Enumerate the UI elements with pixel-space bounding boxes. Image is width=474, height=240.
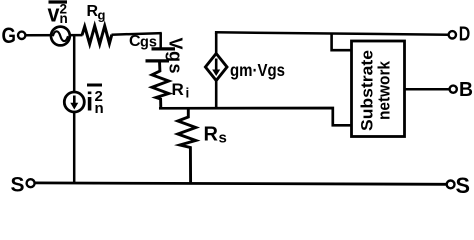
- wire internal node to substrate network: [159, 108, 353, 125]
- label Ri: [172, 80, 190, 101]
- label Substrate network: [358, 50, 394, 131]
- wire gate junction to In source to S rail: [73, 35, 76, 183]
- wire drain line: [215, 32, 449, 34]
- svg-text:n: n: [60, 11, 68, 26]
- label Vn2: [48, 1, 68, 28]
- terminal S right: [447, 173, 470, 198]
- svg-text:B: B: [459, 78, 473, 101]
- wire branch to substrate network: [332, 33, 353, 50]
- resistor Ri: [152, 61, 169, 108]
- svg-text:D: D: [459, 23, 471, 46]
- svg-text:g: g: [98, 8, 106, 23]
- noise current source In2: [64, 92, 84, 112]
- wire bulk line: [404, 88, 450, 91]
- wire G line: [25, 33, 162, 50]
- wire source rail: [35, 183, 447, 184]
- svg-text:S: S: [11, 172, 25, 194]
- svg-text:S: S: [456, 173, 471, 194]
- svg-text:G: G: [2, 23, 17, 48]
- svg-text:gs: gs: [140, 35, 157, 51]
- svg-text:n: n: [95, 100, 104, 117]
- svg-text:R: R: [172, 80, 184, 99]
- label Vgs: [166, 38, 186, 76]
- terminal B: [450, 78, 473, 101]
- label Cgs: [129, 33, 157, 50]
- capacitor Cgs: [146, 49, 176, 61]
- svg-text:i: i: [86, 87, 93, 117]
- svg-text:Vgs: Vgs: [166, 38, 186, 76]
- svg-text:i: i: [186, 86, 190, 101]
- resistor Rs: [178, 109, 196, 183]
- terminal S left: [11, 172, 35, 196]
- svg-text:R: R: [204, 124, 219, 146]
- label Rg: [87, 3, 106, 23]
- label Rs: [204, 124, 227, 147]
- svg-text:gm·Vgs: gm·Vgs: [230, 60, 285, 80]
- substrate network block: [352, 41, 405, 137]
- label In2: [86, 85, 104, 117]
- controlled current source gm-Vgs: [205, 33, 227, 108]
- svg-text:v: v: [48, 1, 61, 28]
- resistor Rg: [82, 26, 112, 44]
- svg-text:s: s: [219, 130, 227, 147]
- label gm-Vgs: [230, 60, 285, 80]
- svg-text:network: network: [375, 61, 394, 120]
- terminal D: [449, 23, 471, 46]
- terminal G: [2, 23, 26, 48]
- noise voltage source Vn2: [51, 27, 70, 46]
